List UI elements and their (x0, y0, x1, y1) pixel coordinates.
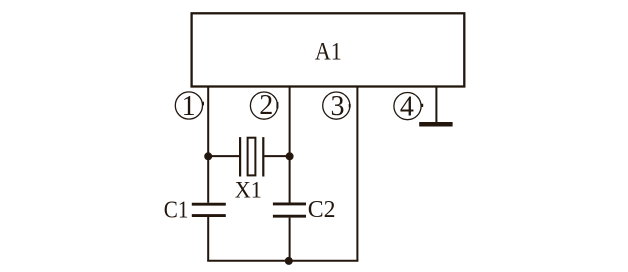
svg-text:4: 4 (400, 92, 414, 123)
svg-text:3: 3 (331, 91, 345, 122)
svg-text:C1: C1 (164, 197, 189, 224)
svg-text:X1: X1 (235, 178, 262, 204)
svg-text:2: 2 (259, 90, 273, 121)
svg-text:1: 1 (182, 91, 196, 122)
svg-text:C2: C2 (308, 196, 336, 223)
svg-text:A1: A1 (315, 36, 342, 65)
